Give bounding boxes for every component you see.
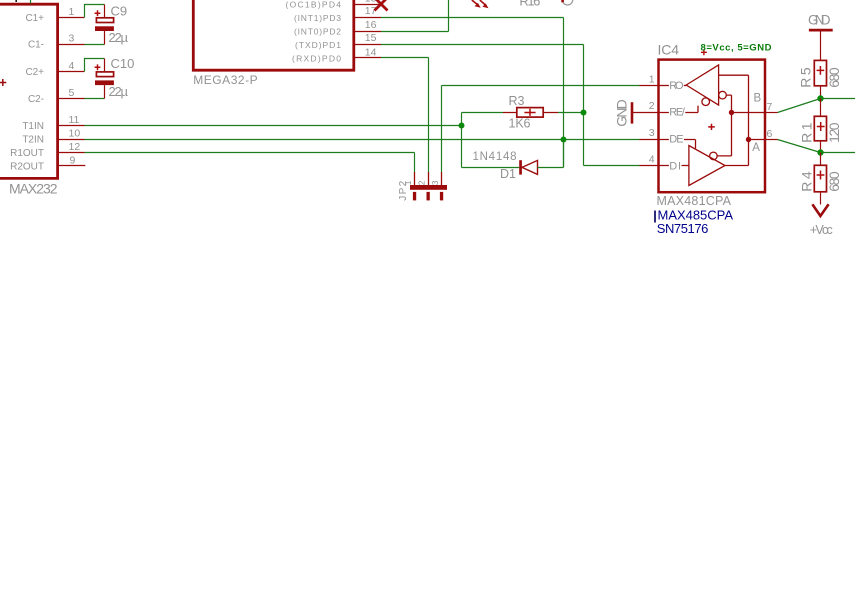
svg-text:R3: R3 (509, 94, 525, 108)
IC4 DE pin stub (640, 139, 659, 141)
svg-text:B: B (754, 93, 762, 105)
svg-text:A: A (752, 142, 760, 154)
svg-text:(INT1)PD3: (INT1)PD3 (294, 13, 341, 23)
svg-text:14: 14 (365, 47, 377, 59)
capacitor C9 (95, 5, 114, 45)
svg-text:3: 3 (430, 180, 440, 185)
MEGA32 pin PD1 stub (354, 44, 381, 46)
wire JP2 pin 3 to IC4 RO (442, 86, 640, 173)
svg-text:120: 120 (826, 122, 842, 143)
IC4 origin cross (701, 49, 707, 55)
wire A to right edge (821, 152, 855, 154)
MAX232 pin 3 stub (58, 44, 85, 46)
IC4 internal junction B (729, 110, 734, 115)
svg-text:4: 4 (649, 153, 655, 165)
wire T1IN net (85, 125, 462, 127)
svg-text:7: 7 (767, 101, 773, 113)
wire PD2 net (381, 0, 449, 32)
IC4 internal wires (717, 75, 765, 165)
wire R1OUT to JP2 pin 1 (85, 153, 415, 173)
resistor R1 (814, 99, 826, 153)
IC4 internal junction A (746, 137, 751, 142)
text cursor mark (654, 211, 656, 223)
connector JP2 (410, 172, 447, 200)
svg-text:16: 16 (365, 19, 377, 31)
IC4 pin numbers (649, 73, 655, 165)
IC MAX232 U-box outline (0, 4, 58, 178)
svg-text:3: 3 (649, 127, 655, 139)
junction A net (817, 149, 823, 155)
svg-text:12: 12 (69, 141, 81, 153)
svg-text:1: 1 (649, 73, 655, 85)
no-connect X on PD4 (375, 0, 388, 11)
part pad mark (561, 0, 564, 2)
svg-text:1: 1 (69, 6, 75, 18)
svg-text:8=Vcc, 5=GND: 8=Vcc, 5=GND (701, 42, 772, 53)
junction B net (817, 95, 823, 101)
svg-text:11: 11 (69, 114, 80, 126)
MAX232 pin 10 stub (58, 139, 85, 141)
node tick top-left (15, 0, 17, 2)
IC4 internal driver buffer (659, 140, 726, 186)
svg-text:6: 6 (767, 128, 773, 140)
junction T1IN/R3 (459, 123, 465, 129)
svg-text:1: 1 (403, 180, 413, 185)
svg-text:22µ: 22µ (109, 30, 129, 45)
wire green stub into MAX232 top edge (30, 0, 32, 4)
svg-text:T1IN: T1IN (22, 121, 44, 132)
svg-text:MAX232: MAX232 (9, 180, 58, 196)
IC MEGA32-P box outline (193, 0, 353, 70)
svg-text:(OC1B)PD4: (OC1B)PD4 (286, 0, 342, 10)
MAX232 pin name labels (10, 13, 44, 173)
wire D1 loop left (462, 126, 520, 168)
MAX232 pin 11 stub (58, 125, 85, 127)
svg-text:22µ: 22µ (109, 84, 129, 99)
MEGA32 pin PD3 stub (354, 17, 381, 19)
wire pin 5 to C10 (85, 98, 105, 100)
wire T2IN net (85, 139, 640, 141)
capacitor C10 (95, 59, 114, 99)
svg-text:15: 15 (365, 32, 377, 44)
svg-text:C9: C9 (111, 4, 128, 19)
IC4 box outline (659, 60, 766, 193)
wire B to right edge (821, 98, 855, 100)
svg-text:C2-: C2- (28, 94, 44, 105)
LED arrows (472, 0, 489, 8)
wire D1 right to T2IN junction (538, 140, 564, 168)
MEGA32 pin PD4 stub (354, 4, 381, 6)
svg-text:2: 2 (416, 180, 426, 185)
svg-text:IC4: IC4 (658, 42, 680, 58)
part symbol circle (clipped) (562, 0, 573, 5)
IC4 internal receiver buffer (659, 65, 727, 113)
ground symbol at IC4 RE (632, 102, 659, 123)
svg-text:GND: GND (614, 99, 630, 127)
svg-text:C1+: C1+ (26, 13, 45, 24)
svg-text:(INT0)PD2: (INT0)PD2 (294, 27, 341, 37)
svg-text:4: 4 (69, 60, 75, 72)
svg-text:MEGA32-P: MEGA32-P (193, 73, 258, 87)
svg-text:DE: DE (669, 134, 683, 146)
IC4 DI pin stub (640, 165, 659, 167)
IC4 pin 6 stub (765, 139, 778, 141)
svg-text:18: 18 (365, 0, 377, 5)
MAX232 pin 9 stub (58, 165, 86, 167)
wire R3 right to PD1 vertical (558, 112, 584, 114)
svg-text:680: 680 (826, 171, 842, 192)
svg-text:RE/: RE/ (669, 107, 686, 119)
svg-text:C10: C10 (111, 56, 135, 71)
wire B diagonal (778, 99, 821, 113)
junction T2IN/D1 (561, 137, 567, 143)
svg-text:680: 680 (826, 67, 842, 88)
resistor R3 (503, 108, 558, 118)
MEGA32 pin numbers (365, 0, 377, 59)
svg-text:+Vcc: +Vcc (810, 223, 833, 237)
MAX232 origin cross (0, 79, 6, 86)
svg-text:2: 2 (649, 100, 655, 112)
svg-text:9: 9 (70, 155, 76, 167)
resistor R5 (814, 60, 826, 98)
svg-text:C2+: C2+ (26, 67, 45, 78)
wire PD3 net (381, 18, 564, 168)
wire PD1 net (381, 45, 584, 166)
IC4 pin 7 stub (765, 112, 778, 114)
MAX232 pin 5 stub (58, 98, 85, 100)
MEGA32 pin name labels (286, 0, 342, 64)
MEGA32 pin PD0 stub (354, 57, 381, 59)
svg-text:R1OUT: R1OUT (10, 148, 44, 159)
svg-text:R16: R16 (519, 0, 540, 8)
svg-text:5: 5 (69, 87, 75, 99)
wire C9 to pin 1 (85, 5, 105, 18)
MEGA32 pin PD2 stub (354, 31, 381, 33)
svg-text:3: 3 (69, 33, 75, 45)
MAX232 pin 4 stub (58, 71, 85, 73)
svg-text:10: 10 (69, 128, 81, 140)
svg-text:1N4148: 1N4148 (473, 151, 517, 163)
svg-text:GND: GND (808, 12, 831, 27)
MAX232 pin 12 stub (58, 152, 85, 154)
IC4 RO pin stub (640, 85, 659, 87)
svg-text:1K6: 1K6 (509, 117, 531, 131)
svg-text:D1: D1 (500, 167, 516, 181)
svg-text:RO: RO (669, 80, 684, 92)
wire DI net (584, 165, 640, 167)
wire R3 left to T1IN junction (462, 113, 504, 126)
resistor R4 (814, 153, 826, 205)
IC4 origin plus (708, 124, 715, 130)
svg-text:SN75176: SN75176 (657, 221, 709, 236)
junction R3/PD1 (581, 110, 587, 116)
MAX232 pin 1 stub (58, 17, 85, 19)
ground symbol top right (808, 12, 833, 60)
svg-text:T2IN: T2IN (22, 135, 44, 146)
wire pin 3 to C9 (85, 44, 105, 46)
svg-text:C1-: C1- (28, 40, 44, 51)
+Vcc arrow symbol (812, 204, 828, 216)
svg-text:MAX481CPA: MAX481CPA (657, 194, 732, 208)
svg-text:R2OUT: R2OUT (10, 162, 44, 173)
svg-text:DI: DI (669, 160, 681, 172)
wire PD0 to JP2 pin 2 (381, 58, 429, 173)
wire C10 to pin 4 (85, 59, 105, 72)
svg-text:17: 17 (365, 5, 377, 17)
svg-text:(TXD)PD1: (TXD)PD1 (295, 40, 341, 50)
diode D1 (519, 160, 537, 174)
wire A diagonal (778, 140, 821, 153)
MAX232 pin numbers (69, 6, 81, 167)
